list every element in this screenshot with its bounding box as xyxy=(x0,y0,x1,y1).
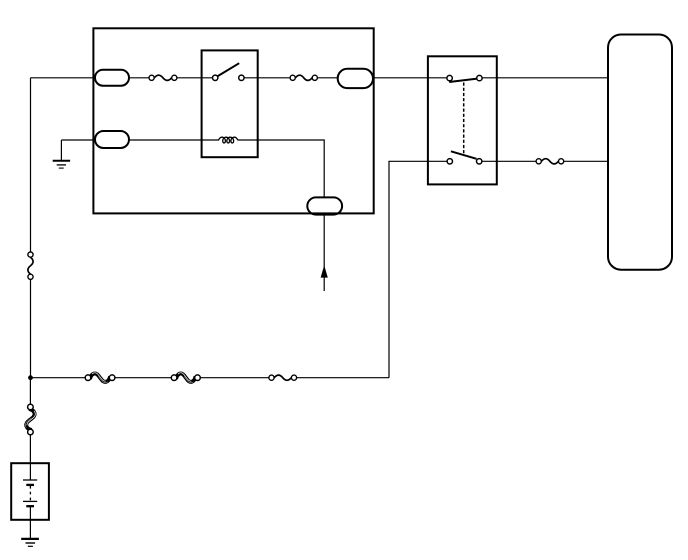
wire xyxy=(244,77,290,79)
control unit box xyxy=(93,28,373,213)
connector pill P4 xyxy=(307,197,342,214)
wire xyxy=(61,139,96,141)
relay box xyxy=(202,50,258,157)
fuse F5 terminals xyxy=(536,159,564,164)
wire xyxy=(128,139,219,141)
wire xyxy=(482,160,536,162)
wire xyxy=(561,160,608,162)
fuse V1 wave (vertical) xyxy=(28,257,33,274)
wire xyxy=(29,435,31,480)
connector pill P3 xyxy=(338,69,373,88)
fusible link FL1 terminals xyxy=(85,375,115,381)
ground G1 (left) xyxy=(53,161,70,168)
fusible link FL3 band (vertical) xyxy=(25,409,35,430)
fusible link FL3 terminals xyxy=(28,404,34,435)
wire xyxy=(238,140,325,291)
relay switch blade xyxy=(217,63,240,77)
wire xyxy=(373,77,447,79)
wire xyxy=(29,506,31,539)
fuse F5 wave xyxy=(541,159,558,164)
fusible link FL2 terminals xyxy=(171,375,200,381)
fuse F1 terminals xyxy=(149,75,177,80)
load unit (rounded) xyxy=(608,35,672,270)
fuse F1 wave xyxy=(154,75,171,80)
relay coil L1 xyxy=(219,137,238,143)
fuse V1 terminals xyxy=(28,252,33,279)
ganged switch dashed link xyxy=(463,83,465,155)
connector pill P2 xyxy=(95,131,129,148)
connector pill P1 xyxy=(95,70,129,86)
node junction xyxy=(28,375,33,380)
wire xyxy=(29,378,31,405)
fuse F4 terminals xyxy=(269,375,297,380)
wire xyxy=(482,77,608,79)
arrow (signal input) xyxy=(321,265,328,277)
switch blade lower (ignition) xyxy=(451,151,477,159)
fusible link FL2 band xyxy=(176,373,195,383)
wire xyxy=(198,377,270,379)
wire xyxy=(30,78,32,252)
battery box xyxy=(11,463,49,520)
wire xyxy=(31,377,86,379)
fusible link FL1 band xyxy=(90,373,110,383)
wire xyxy=(389,161,447,377)
ignition switch terminals lower xyxy=(447,159,482,164)
relay switch terminals xyxy=(213,75,245,80)
ignition switch box xyxy=(428,56,497,184)
wire xyxy=(30,280,32,378)
wire xyxy=(112,377,171,379)
wire xyxy=(31,77,150,79)
fuse F2 wave xyxy=(295,75,312,80)
wire xyxy=(294,377,389,379)
wire xyxy=(177,77,213,79)
switch blade upper (ignition) xyxy=(449,79,477,82)
wire xyxy=(317,77,338,79)
fuse F2 terminals xyxy=(290,75,317,80)
ignition switch terminals upper xyxy=(447,75,482,80)
wire xyxy=(60,140,62,160)
ground G2 (battery) xyxy=(21,539,39,546)
battery B1 plates xyxy=(23,480,37,506)
fuse F4 wave xyxy=(274,375,291,380)
